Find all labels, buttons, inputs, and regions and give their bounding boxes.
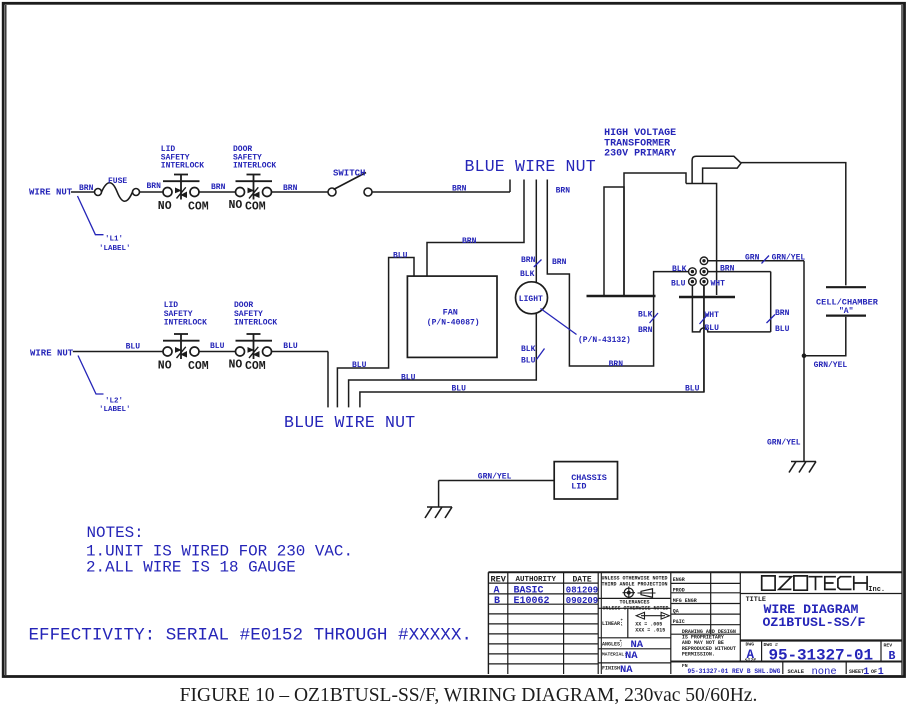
svg-text:DOOR: DOOR [234, 301, 253, 310]
svg-text:Inc.: Inc. [868, 586, 885, 594]
svg-text:A: A [494, 586, 500, 597]
svg-text:BLK: BLK [672, 265, 687, 274]
svg-text:BLU: BLU [775, 325, 790, 334]
svg-text:NA: NA [620, 664, 633, 676]
svg-text:BLU: BLU [671, 280, 686, 289]
svg-text:INTERLOCK: INTERLOCK [233, 162, 276, 171]
svg-text:95-31327-01: 95-31327-01 [769, 647, 874, 665]
svg-text:NO: NO [229, 358, 243, 371]
svg-text:BLU: BLU [685, 385, 700, 394]
svg-text:BLU: BLU [210, 342, 225, 351]
svg-text:GRN/YEL: GRN/YEL [478, 473, 512, 482]
svg-text:SHEET: SHEET [849, 669, 864, 675]
svg-text:LIGHT: LIGHT [519, 295, 543, 304]
svg-text:GRN: GRN [745, 254, 760, 263]
svg-text:THIRD ANGLE PROJECTION: THIRD ANGLE PROJECTION [601, 581, 667, 587]
svg-text:BRN: BRN [720, 265, 735, 274]
svg-text:SAFETY: SAFETY [164, 310, 193, 319]
svg-text:INTERLOCK: INTERLOCK [234, 319, 277, 328]
svg-text:E10062: E10062 [514, 596, 550, 607]
svg-text:OZ1BTUSL-SS/F: OZ1BTUSL-SS/F [763, 615, 866, 630]
svg-text:NO: NO [158, 359, 172, 372]
svg-text:P&IC: P&IC [673, 619, 685, 625]
svg-text:WIRE NUT: WIRE NUT [30, 349, 74, 359]
svg-text:090209: 090209 [566, 596, 598, 606]
svg-text:B: B [889, 650, 896, 663]
svg-text:BLU: BLU [452, 385, 467, 394]
svg-text:EFFECTIVITY: SERIAL #E0152 THR: EFFECTIVITY: SERIAL #E0152 THROUGH #XXXX… [29, 626, 472, 646]
svg-text:COM: COM [188, 360, 209, 373]
svg-text:BASIC: BASIC [514, 586, 544, 597]
svg-text:BLU: BLU [283, 342, 298, 351]
svg-text:MFG ENGR: MFG ENGR [673, 598, 697, 604]
svg-text:SAFETY: SAFETY [234, 310, 263, 319]
svg-text:COM: COM [188, 201, 209, 214]
svg-text:BLK: BLK [638, 311, 653, 320]
svg-text:BRN: BRN [556, 187, 571, 196]
svg-text:BRN: BRN [775, 309, 790, 318]
svg-text:SIZE: SIZE [745, 657, 757, 663]
svg-text:DWG: DWG [746, 641, 755, 647]
svg-text:081209: 081209 [566, 586, 598, 596]
svg-text:FUSE: FUSE [108, 177, 127, 186]
svg-text:PERMISSION.: PERMISSION. [682, 651, 715, 657]
svg-text:BLU: BLU [393, 252, 408, 261]
svg-text:FAN: FAN [443, 308, 458, 318]
svg-text:GRN/YEL: GRN/YEL [814, 361, 848, 370]
svg-text:BLU: BLU [705, 324, 720, 333]
svg-text:'LABEL': 'LABEL' [99, 245, 131, 253]
svg-text:BLUE WIRE NUT: BLUE WIRE NUT [284, 413, 415, 432]
svg-text:LID: LID [571, 482, 586, 492]
svg-text:OF: OF [871, 669, 877, 675]
svg-text:BLU: BLU [352, 361, 367, 370]
svg-text:BLU: BLU [126, 343, 141, 352]
svg-text:FIGURE 10 – OZ1BTUSL-SS/F, WIR: FIGURE 10 – OZ1BTUSL-SS/F, WIRING DIAGRA… [180, 685, 758, 706]
svg-text:'L1': 'L1' [105, 236, 123, 244]
svg-text:QA: QA [673, 608, 679, 614]
svg-text:BLU: BLU [401, 374, 416, 383]
svg-text:'LABEL': 'LABEL' [99, 406, 131, 414]
svg-text:BRN: BRN [211, 183, 226, 192]
svg-text:NA: NA [625, 650, 638, 662]
svg-text:BRN: BRN [283, 184, 298, 193]
svg-text:SWITCH: SWITCH [333, 169, 365, 179]
svg-text:SCALE: SCALE [788, 668, 805, 675]
svg-text:NO: NO [158, 200, 172, 213]
svg-text:BLUE WIRE NUT: BLUE WIRE NUT [465, 157, 596, 176]
svg-text:BRN: BRN [521, 256, 536, 265]
svg-text:-: - [620, 645, 622, 649]
svg-text:(P/N-40087): (P/N-40087) [427, 318, 480, 327]
svg-text:1: 1 [878, 667, 884, 678]
svg-text:DATE: DATE [573, 576, 592, 585]
svg-text:INTERLOCK: INTERLOCK [164, 319, 207, 328]
svg-text:-: - [621, 625, 623, 629]
svg-text:INTERLOCK: INTERLOCK [161, 162, 204, 171]
svg-text:BLU: BLU [521, 357, 536, 366]
svg-text:BRN: BRN [462, 237, 477, 246]
svg-text:230V PRIMARY: 230V PRIMARY [604, 149, 676, 160]
svg-text:AUTHORITY: AUTHORITY [516, 576, 557, 584]
svg-text:COM: COM [245, 201, 266, 214]
svg-text:UNLESS OTHERWISE NOTED: UNLESS OTHERWISE NOTED [602, 605, 668, 611]
svg-text:BRN: BRN [609, 360, 624, 369]
svg-text:WHT: WHT [711, 280, 726, 289]
svg-text:WIRE NUT: WIRE NUT [29, 188, 73, 198]
svg-text:XXX = .015: XXX = .015 [635, 627, 665, 633]
svg-text:BLK: BLK [520, 270, 535, 279]
svg-text:'L2': 'L2' [105, 398, 123, 406]
svg-text:LID: LID [164, 301, 179, 310]
svg-text:REV: REV [491, 575, 507, 585]
svg-text:PROD: PROD [673, 588, 685, 594]
svg-text:B: B [494, 596, 500, 607]
svg-text:ENGR: ENGR [673, 577, 685, 583]
svg-text:BLK: BLK [521, 345, 536, 354]
svg-text:BRN: BRN [147, 182, 162, 191]
svg-text:COM: COM [245, 360, 266, 373]
svg-text:1: 1 [863, 667, 869, 678]
svg-text:"A": "A" [839, 307, 853, 316]
svg-text:none: none [812, 666, 837, 678]
svg-text:BRN: BRN [79, 184, 94, 193]
svg-text:BRN: BRN [452, 185, 467, 194]
svg-text:(P/N-43132): (P/N-43132) [578, 336, 631, 345]
svg-text:BRN: BRN [638, 326, 653, 335]
svg-text:MATERIAL:: MATERIAL: [602, 651, 627, 657]
svg-text:CELL/CHAMBER: CELL/CHAMBER [816, 298, 879, 308]
svg-text:95-31327-01 REV B SHL.DWG: 95-31327-01 REV B SHL.DWG [688, 668, 781, 675]
svg-text:BRN: BRN [552, 258, 567, 267]
svg-text:REV: REV [884, 643, 893, 649]
svg-text:GRN/YEL: GRN/YEL [767, 438, 801, 447]
svg-text:NOTES:: NOTES: [87, 524, 144, 542]
svg-text:GRN/YEL: GRN/YEL [772, 254, 806, 263]
svg-text:2.ALL WIRE IS 18 GAUGE: 2.ALL WIRE IS 18 GAUGE [86, 559, 296, 577]
svg-text:NO: NO [229, 199, 243, 212]
